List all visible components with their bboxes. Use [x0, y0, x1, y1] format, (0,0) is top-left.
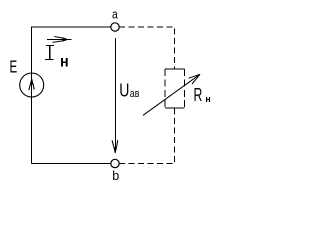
svg-text:н: н	[60, 53, 69, 71]
svg-text:E: E	[10, 57, 18, 77]
svg-text:b: b	[112, 168, 119, 183]
voltage arrow head (points down)	[112, 140, 118, 153]
wire left	[31, 27, 33, 164]
current symbol I (drawn with serifs)	[45, 45, 54, 60]
wire bottom	[32, 163, 111, 165]
voltage arrow shaft (a to b)	[114, 38, 116, 148]
dashed wire from node a to load top	[119, 27, 174, 69]
dashed wire from load bottom to node b	[119, 109, 174, 164]
wire top	[32, 26, 111, 28]
EMF source E circle	[20, 73, 44, 97]
current direction arrow	[47, 37, 72, 43]
node b	[111, 159, 119, 167]
svg-text:R: R	[194, 86, 203, 106]
svg-text:н: н	[205, 94, 210, 104]
variable resistor arrow	[143, 74, 200, 115]
svg-text:a: a	[112, 7, 118, 21]
load resistor Rн dashed box	[165, 69, 185, 108]
node a	[111, 23, 119, 31]
EMF source arrow (points up)	[29, 78, 34, 90]
svg-text:ав: ав	[130, 88, 140, 100]
svg-text:U: U	[119, 80, 129, 101]
